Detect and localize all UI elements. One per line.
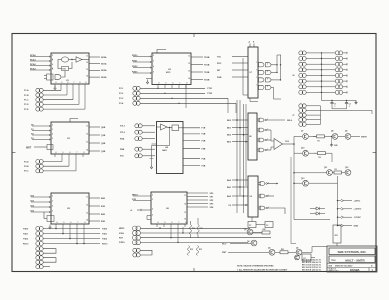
- resistor R10: [189, 225, 192, 235]
- svg-text:F2B: F2B: [202, 134, 206, 136]
- svg-text:Y3: Y3: [266, 225, 268, 227]
- IC U6: [151, 192, 187, 224]
- spare pin: [36, 260, 43, 264]
- transistor Q10: [303, 150, 309, 156]
- svg-text:R10: R10: [192, 228, 195, 230]
- svg-text:STB: STB: [132, 199, 137, 201]
- divider box G3 in U4: [172, 125, 179, 131]
- resistor R1: [317, 135, 325, 138]
- U2 right outputs: [191, 56, 203, 58]
- svg-text:TD0B: TD0B: [204, 57, 210, 59]
- resistor R13: [196, 246, 199, 256]
- svg-text:11: 11: [188, 55, 190, 57]
- transistor Q3: [247, 229, 253, 235]
- bus rail wire: [245, 104, 247, 186]
- rail wire 2: [290, 157, 292, 244]
- connector pin J6-2: [299, 57, 306, 61]
- bus rail wire: [236, 100, 238, 213]
- U2 bottom pins: [157, 85, 159, 89]
- svg-text:R20: R20: [263, 229, 266, 231]
- svg-text:P2-C: P2-C: [24, 171, 29, 173]
- connector pin J7-4: [299, 118, 306, 122]
- supply tap +12VDC: [338, 208, 342, 210]
- bank1 bottom rail: [322, 100, 357, 102]
- svg-text:R3: R3: [335, 169, 337, 171]
- ground at bank1: [331, 106, 333, 109]
- svg-text:Q10: Q10: [301, 148, 304, 150]
- IC U7 resistor network: [248, 47, 258, 98]
- title box: [329, 256, 375, 263]
- U3 bottom pins: [54, 154, 56, 157]
- gate G7: [259, 118, 264, 122]
- ground at U4: [151, 165, 153, 168]
- U6 left inputs: [133, 195, 151, 197]
- svg-text:R12: R12: [190, 249, 193, 251]
- svg-text:RXD3: RXD3: [132, 71, 138, 73]
- svg-text:RXC: RXC: [217, 63, 222, 65]
- U7 top pins: [249, 44, 251, 48]
- U1 right output wires: [89, 56, 100, 58]
- transistor Q9: [345, 134, 351, 140]
- svg-text:SIZE: SIZE: [329, 265, 333, 267]
- gate G8: [259, 128, 264, 132]
- border frame: [12, 34, 376, 272]
- U3 right outputs: [89, 126, 100, 128]
- supply tap -12VDC: [338, 216, 342, 218]
- svg-text:-12VDC: -12VDC: [354, 217, 362, 219]
- connector pin J6-5: [299, 74, 306, 78]
- connector pin J6-1: [299, 51, 306, 55]
- transistor Q11: [327, 170, 333, 176]
- IC U2: [152, 53, 191, 85]
- spare pin: [36, 256, 43, 260]
- gate G1 inside U1: [61, 57, 68, 62]
- connector pin J6-3: [299, 62, 306, 66]
- resistor R3: [334, 171, 342, 174]
- svg-text:F3B: F3B: [202, 140, 206, 142]
- svg-text:MULT - XMTR: MULT - XMTR: [345, 259, 365, 263]
- svg-text:SD3A: SD3A: [101, 76, 107, 79]
- svg-text:F5B: F5B: [202, 159, 206, 161]
- bus rail wire: [243, 104, 245, 213]
- U1 left input wires: [30, 56, 51, 58]
- svg-text:TXD0: TXD0: [102, 228, 108, 230]
- svg-text:U8: U8: [249, 136, 251, 138]
- svg-text:Q0B: Q0B: [101, 127, 106, 129]
- svg-text:Q1B: Q1B: [101, 135, 106, 137]
- svg-text:CTS1: CTS1: [207, 88, 213, 90]
- svg-text:STC: STC: [120, 156, 125, 158]
- svg-text:P1-B: P1-B: [24, 95, 29, 97]
- relay K1: [302, 254, 311, 261]
- gate G4: [259, 63, 265, 67]
- vertical rails right of gates: [276, 55, 278, 72]
- svg-text:B3D: B3D: [101, 221, 106, 223]
- svg-text:NOTE: UNLESS OTHERWISE SPECIF: NOTE: UNLESS OTHERWISE SPECIFIED: [237, 265, 274, 267]
- svg-text:R13: R13: [199, 249, 202, 251]
- capacitor C2: [346, 101, 348, 103]
- capacitor C1: [331, 101, 333, 103]
- U3 left inputs: [32, 125, 51, 127]
- transistor Q7: [303, 134, 309, 140]
- U5 bottom pins: [55, 224, 57, 229]
- svg-text:CLK: CLK: [285, 141, 290, 143]
- svg-text:CTS2: CTS2: [207, 93, 213, 95]
- svg-text:Q3: Q3: [244, 229, 246, 231]
- svg-text:TD1B: TD1B: [204, 64, 210, 66]
- U4 clk wire: [152, 143, 157, 145]
- svg-text:B1D: B1D: [101, 206, 106, 208]
- U1 bottom pins: [54, 84, 56, 88]
- svg-text:12: 12: [86, 133, 88, 135]
- svg-text:SD2A: SD2A: [101, 69, 107, 72]
- resistor R20: [262, 231, 270, 234]
- svg-text:MRPL: MRPL: [119, 228, 125, 230]
- svg-text:Q7: Q7: [301, 131, 303, 133]
- svg-text:Q6: Q6: [296, 248, 298, 250]
- svg-text:SHEET 1 OF 2: SHEET 1 OF 2: [329, 270, 339, 272]
- resistor R21: [280, 251, 288, 254]
- resistor R11: [197, 225, 200, 235]
- svg-text:R11: R11: [200, 228, 203, 230]
- svg-text:Q12: Q12: [345, 167, 348, 169]
- RCV net wire: [230, 243, 251, 245]
- svg-text:TXD1: TXD1: [102, 233, 108, 235]
- svg-text:Q8: Q8: [331, 131, 333, 133]
- svg-text:12: 12: [86, 204, 88, 206]
- company box: [329, 248, 375, 255]
- svg-text:+12VDC: +12VDC: [354, 209, 362, 211]
- svg-text:Q13: Q13: [301, 178, 304, 180]
- svg-text:GND: GND: [354, 226, 359, 228]
- svg-text:+5: +5: [248, 42, 250, 44]
- svg-text:SD0A: SD0A: [101, 56, 107, 59]
- svg-text:+5VDC: +5VDC: [354, 201, 361, 203]
- svg-text:.1: .1: [334, 106, 335, 108]
- svg-text:.1: .1: [349, 106, 350, 108]
- svg-text:MRST: MRST: [132, 194, 138, 196]
- svg-text:P1-A: P1-A: [24, 89, 29, 92]
- gate G12: [260, 194, 265, 198]
- U2 aux pin: [146, 78, 152, 80]
- transistor Q4: [251, 240, 257, 246]
- svg-text:TXD1: TXD1: [23, 233, 29, 235]
- svg-text:RSB: RSB: [120, 149, 125, 151]
- svg-text:13: 13: [188, 70, 190, 72]
- gate G2 lower-left of U1: [55, 75, 61, 80]
- svg-text:RCA0: RCA0: [30, 54, 37, 57]
- buffer A1 inside U1: [76, 57, 82, 62]
- svg-text:RXD2: RXD2: [132, 66, 138, 68]
- svg-text:P2-A: P2-A: [24, 160, 29, 163]
- transistor Q13: [303, 180, 309, 186]
- U7 left inputs: [232, 56, 248, 58]
- resistor R12: [187, 246, 190, 256]
- svg-text:12: 12: [184, 203, 186, 205]
- transistor Q12: [345, 170, 351, 176]
- connector pin P6-7: [335, 85, 342, 89]
- J6 bus rail: [321, 53, 323, 101]
- feedback wire in U4: [152, 128, 170, 165]
- connector pin J6-4: [299, 68, 306, 72]
- svg-text:RCA1: RCA1: [30, 58, 37, 61]
- svg-text:TXD2: TXD2: [102, 238, 108, 240]
- svg-text:Q5: Q5: [268, 248, 270, 250]
- svg-text:WRT: WRT: [26, 148, 32, 150]
- diode D1: [310, 208, 316, 210]
- svg-text:TD2B: TD2B: [204, 72, 210, 74]
- svg-text:11: 11: [184, 195, 186, 197]
- svg-text:C1: C1: [334, 104, 336, 106]
- svg-text:U7: U7: [250, 72, 252, 74]
- U5 right outputs: [89, 197, 100, 199]
- svg-text:F4B: F4B: [202, 148, 206, 151]
- connector pin J7-1: [299, 104, 306, 108]
- left rail to chain: [294, 135, 302, 137]
- supply tap GND: [338, 225, 342, 227]
- svg-text:11: 11: [86, 125, 88, 127]
- IC VR1: [333, 225, 341, 243]
- svg-text:TXD0: TXD0: [23, 228, 29, 230]
- U2 top pin: [157, 50, 166, 54]
- IC U3: [51, 122, 89, 154]
- ground at U5: [49, 225, 51, 228]
- svg-text:14411: 14411: [162, 149, 167, 152]
- svg-text:RSA: RSA: [120, 137, 125, 140]
- U8 left inputs: [232, 119, 248, 121]
- svg-text:13: 13: [86, 69, 88, 71]
- svg-text:B2D: B2D: [101, 214, 106, 216]
- svg-text:1. ALL RESISTOR VALUES ARE IN: 1. ALL RESISTOR VALUES ARE IN OHMS AND 1…: [237, 268, 288, 271]
- number row: [327, 267, 377, 269]
- latch symbol at U5: [47, 216, 54, 222]
- svg-text:Q11: Q11: [324, 167, 327, 169]
- svg-text:U9: U9: [250, 196, 252, 198]
- spare pin: [36, 265, 43, 269]
- U6 right outputs: [187, 192, 208, 194]
- svg-text:REV E ECN 1203 9-9-76: REV E ECN 1203 9-9-76: [302, 269, 321, 271]
- size/dwg row: [327, 263, 377, 265]
- gate G5b: [259, 78, 265, 82]
- U4 right outputs: [183, 127, 200, 129]
- connector pin P6-5: [335, 74, 342, 78]
- IC U4: [157, 122, 184, 174]
- U6 bottom pins: [156, 224, 158, 227]
- rev box: [368, 268, 370, 273]
- U6 aux pins: [147, 215, 151, 217]
- J7 bus rail: [320, 106, 322, 125]
- vertical supply rail: [337, 176, 339, 225]
- gate G5: [259, 70, 265, 74]
- gate G11: [260, 182, 265, 186]
- transistor Q14: [295, 255, 300, 260]
- ground at Q8: [331, 137, 333, 143]
- svg-text:SBE SYSTEMS, INC.: SBE SYSTEMS, INC.: [337, 250, 366, 254]
- sub box Y1 inside U1: [62, 67, 69, 71]
- svg-text:SEL0: SEL0: [287, 120, 293, 122]
- wire from U7 under: [243, 58, 248, 95]
- connector pin J6-8: [299, 90, 306, 94]
- connector pin P6-2: [335, 57, 342, 61]
- svg-text:RCA2: RCA2: [30, 63, 37, 66]
- connector pin J7-2: [299, 108, 306, 112]
- svg-text:13: 13: [86, 141, 88, 143]
- svg-text:XMT: XMT: [222, 252, 227, 254]
- spare loop wires: [43, 249, 56, 254]
- spare pin: [36, 251, 43, 255]
- svg-text:Q2B: Q2B: [101, 143, 106, 145]
- IC U8 decoder: [248, 113, 257, 160]
- IC U5: [51, 193, 89, 224]
- gate G13: [260, 206, 265, 210]
- svg-text:SD1A: SD1A: [101, 63, 107, 66]
- svg-text:XMTR: XMTR: [361, 136, 367, 138]
- crystal boxes: [248, 222, 256, 228]
- svg-text:RXD0: RXD0: [132, 55, 138, 57]
- spare pin: [133, 248, 140, 252]
- svg-text:12: 12: [188, 63, 190, 65]
- svg-text:11: 11: [86, 55, 88, 57]
- connector pin P6-4: [335, 68, 342, 72]
- IC U1: [51, 53, 89, 84]
- connector pin J6-6: [299, 79, 306, 83]
- svg-text:Y2: Y2: [249, 225, 251, 227]
- long net wire: [294, 219, 330, 221]
- spare pin: [36, 247, 43, 251]
- svg-text:F1B: F1B: [202, 128, 206, 130]
- svg-text:P1-D: P1-D: [24, 104, 29, 106]
- connector pin P6-1: [335, 51, 342, 55]
- connector pin J7-5: [299, 122, 306, 126]
- transistor Q8: [332, 134, 338, 140]
- svg-text:Q9: Q9: [345, 131, 347, 133]
- svg-text:TXC: TXC: [217, 56, 222, 58]
- combiner funnel: [271, 130, 274, 141]
- svg-text:RXC0: RXC0: [23, 243, 29, 245]
- IC U9 decoder: [248, 176, 258, 217]
- svg-text:R1: R1: [318, 140, 320, 142]
- svg-text:60346: 60346: [350, 268, 360, 272]
- svg-text:TD3B: TD3B: [204, 79, 210, 81]
- gate G10: [259, 148, 264, 152]
- supply tap +5VDC: [338, 200, 342, 202]
- connector pin J6-7: [299, 85, 306, 89]
- svg-text:Q4: Q4: [247, 240, 249, 243]
- title block: [327, 246, 377, 272]
- zone tick marks: [12, 152, 16, 154]
- resistor R2: [318, 152, 326, 155]
- svg-text:13: 13: [184, 212, 186, 214]
- svg-text:B0D: B0D: [101, 198, 106, 200]
- svg-text:RXD1: RXD1: [132, 60, 138, 62]
- diode D2: [310, 213, 316, 215]
- svg-text:P1-C: P1-C: [24, 100, 29, 102]
- svg-text:P1-E: P1-E: [24, 109, 29, 111]
- J7 out wire: [321, 109, 373, 111]
- svg-text:VR1: VR1: [335, 235, 338, 237]
- U9 left inputs: [232, 179, 248, 181]
- U5 left inputs: [31, 196, 51, 198]
- svg-text:TXD2: TXD2: [23, 238, 29, 240]
- buffer A2 in U4: [161, 124, 168, 130]
- svg-text:DTRG: DTRG: [119, 242, 125, 244]
- svg-text:STAL: STAL: [119, 232, 125, 235]
- svg-text:DWG NO 123-0467: DWG NO 123-0467: [335, 265, 353, 268]
- connector pin P6-6: [335, 79, 342, 83]
- gate G6: [259, 85, 264, 89]
- connector pin J7-3: [299, 113, 306, 117]
- svg-text:Q3B: Q3B: [101, 151, 106, 153]
- spare pin: [133, 253, 140, 257]
- svg-text:12: 12: [86, 62, 88, 64]
- svg-text:11: 11: [86, 196, 88, 198]
- svg-text:R21: R21: [281, 249, 284, 251]
- U3 top pin: [70, 119, 78, 123]
- gate G9: [259, 138, 264, 142]
- bus drop wires: [227, 98, 229, 113]
- transistor Q6: [296, 249, 302, 255]
- svg-text:RCV: RCV: [222, 243, 227, 245]
- connector pin P6-8: [335, 90, 342, 94]
- svg-text:RXC0: RXC0: [102, 243, 108, 245]
- U2 left inputs: [133, 56, 152, 58]
- svg-text:C2: C2: [349, 104, 351, 106]
- svg-text:13: 13: [86, 212, 88, 214]
- svg-text:F6B: F6B: [202, 165, 206, 167]
- bus junction dots: [236, 119, 238, 121]
- svg-text:RCA3: RCA3: [30, 67, 37, 70]
- bus rail wire: [239, 100, 241, 196]
- svg-text:DSR: DSR: [217, 77, 222, 79]
- svg-text:P2-B: P2-B: [24, 166, 29, 168]
- ground at U1: [54, 86, 56, 89]
- transistor Q5: [269, 249, 275, 255]
- connector pin P6-3: [335, 62, 342, 66]
- svg-text:R2: R2: [319, 157, 321, 159]
